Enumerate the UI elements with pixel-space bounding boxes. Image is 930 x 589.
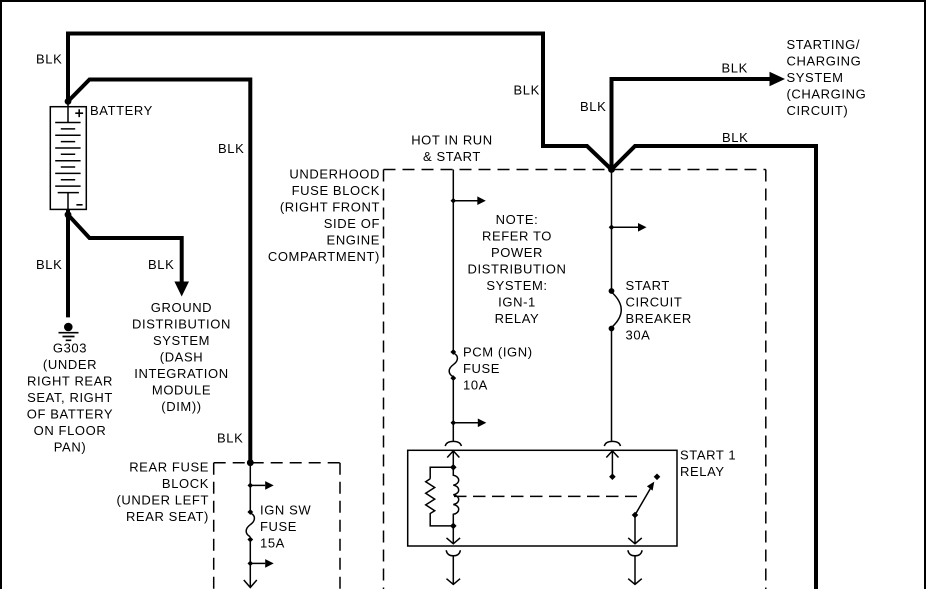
label START CIRCUIT BREAKER 30A (626, 278, 692, 343)
svg-text:BREAKER: BREAKER (626, 311, 692, 326)
svg-text:BLK: BLK (722, 61, 748, 76)
svg-text:(RIGHT FRONT: (RIGHT FRONT (280, 200, 380, 215)
relay box START 1 RELAY (408, 450, 677, 546)
label NOTE REFER TO POWER DISTRIBUTION SYSTEM: IGN-1 RELAY (468, 212, 567, 326)
svg-text:STARTING/: STARTING/ (787, 37, 861, 52)
svg-text:DISTRIBUTION: DISTRIBUTION (468, 262, 567, 277)
svg-text:MODULE: MODULE (152, 383, 211, 398)
node main junction (608, 166, 615, 173)
battery BATTERY (50, 101, 86, 215)
svg-text:RELAY: RELAY (680, 464, 725, 479)
svg-text:COMPARTMENT): COMPARTMENT) (268, 249, 380, 264)
relay switch blade with arrow (635, 489, 650, 516)
svg-text:(UNDER LEFT: (UNDER LEFT (116, 492, 209, 507)
svg-text:OF BATTERY: OF BATTERY (27, 407, 113, 422)
svg-text:CHARGING: CHARGING (787, 53, 862, 68)
svg-text:BLK: BLK (722, 130, 748, 145)
wire breaker to relay switch pin (611, 329, 613, 441)
svg-text:(DASH: (DASH (160, 350, 203, 365)
coil inside relay (453, 467, 458, 526)
svg-text:30A: 30A (626, 328, 651, 343)
wire relay switch pin exit with arrow (628, 556, 642, 585)
wire junction to starting/charging system (BLK) (612, 79, 770, 170)
connector at relay coil pin top (445, 441, 461, 446)
svg-text:SIDE OF: SIDE OF (324, 216, 380, 231)
svg-text:15A: 15A (260, 536, 285, 551)
node relay coil bottom (450, 523, 457, 530)
svg-text:REFER TO: REFER TO (482, 229, 552, 244)
node tap with arrow (612, 226, 639, 228)
node battery positive terminal (65, 98, 72, 105)
svg-text:SEAT, RIGHT: SEAT, RIGHT (27, 390, 113, 405)
node rear fuse block feed (247, 459, 254, 466)
label STARTING/CHARGING SYSTEM text (787, 37, 867, 118)
ground G303 (59, 323, 79, 341)
svg-text:FUSE BLOCK: FUSE BLOCK (292, 183, 380, 198)
svg-text:REAR FUSE: REAR FUSE (129, 459, 209, 474)
node battery negative terminal (65, 211, 72, 218)
wire rear fuse column (249, 463, 251, 512)
label battery minus sign (76, 204, 82, 206)
svg-text:PCM (IGN): PCM (IGN) (463, 345, 533, 360)
connector below relay coil pin (446, 550, 460, 556)
svg-text:FUSE: FUSE (260, 519, 297, 534)
wire battery negative to ground G303 (66, 209, 70, 317)
relay coil pin entry arrow (447, 451, 459, 467)
svg-text:& START: & START (423, 149, 481, 164)
node relay switch fixed contact (654, 474, 661, 481)
svg-text:ON FLOOR: ON FLOOR (34, 423, 107, 438)
wire junction to right side down (BLK) (612, 146, 817, 589)
svg-text:BLOCK: BLOCK (162, 476, 209, 491)
label REAR FUSE BLOCK text (116, 459, 209, 524)
fuse IGN SW FUSE 15A (246, 509, 254, 542)
wire relay coil pin exit with arrow (447, 556, 461, 585)
wire junction down to circuit breaker (611, 170, 613, 292)
svg-text:UNDERHOOD: UNDERHOOD (289, 167, 380, 182)
svg-text:(UNDER: (UNDER (43, 357, 97, 372)
svg-text:BLK: BLK (148, 257, 174, 272)
circuit breaker START CIRCUIT BREAKER 30A (609, 288, 622, 331)
wire switch pivot to box bottom with arrow (628, 515, 642, 544)
connector at relay switch pin top (604, 441, 620, 446)
svg-text:START 1: START 1 (680, 448, 736, 463)
svg-text:BATTERY: BATTERY (90, 103, 153, 118)
wire fuse down with arrow tap and exit arrow (244, 540, 257, 588)
label START 1 RELAY (680, 448, 736, 480)
svg-text:(DIM)): (DIM)) (161, 399, 201, 414)
underhood fuse block dashed box (384, 170, 766, 589)
wire battery positive to top bus to junction node (68, 34, 612, 170)
rear fuse block dashed box (214, 463, 340, 589)
svg-text:POWER: POWER (491, 245, 543, 260)
label UNDERHOOD FUSE BLOCK text (268, 167, 380, 265)
arrow to ground distribution system (174, 282, 189, 297)
fuse PCM (IGN) FUSE 10A (449, 349, 457, 381)
label GROUND DISTRIBUTION SYSTEM (DASH INTEGRATION MODULE (DIM)) (132, 300, 231, 414)
svg-text:ENGINE: ENGINE (327, 233, 380, 248)
svg-text:BLK: BLK (514, 83, 540, 98)
svg-text:IGN-1: IGN-1 (498, 295, 536, 310)
svg-text:RIGHT REAR: RIGHT REAR (27, 374, 113, 389)
label IGN SW FUSE 15A (260, 503, 311, 551)
wire battery negative to ground distribution system (BLK) (68, 215, 182, 282)
svg-text:CIRCUIT: CIRCUIT (626, 295, 683, 310)
svg-text:CIRCUIT): CIRCUIT) (787, 103, 849, 118)
relay switch pin entry arrow (606, 451, 618, 477)
svg-text:BLK: BLK (36, 257, 62, 272)
node relay switch pivot (632, 512, 639, 519)
svg-text:RELAY: RELAY (495, 311, 540, 326)
svg-text:FUSE: FUSE (463, 361, 500, 376)
resistor inside relay (426, 467, 454, 526)
label PCM (IGN) FUSE 10A (463, 345, 533, 393)
dashed linkage coil to switch (454, 495, 637, 497)
svg-text:DISTRIBUTION: DISTRIBUTION (132, 317, 231, 332)
svg-text:SYSTEM:: SYSTEM: (486, 278, 547, 293)
svg-text:IGN SW: IGN SW (260, 503, 311, 518)
svg-text:BLK: BLK (218, 141, 244, 156)
svg-text:BLK: BLK (36, 52, 62, 67)
wire hot-in-run column (452, 170, 454, 353)
arrow to starting/charging system (770, 72, 786, 86)
node relay coil top (450, 464, 457, 471)
wire battery positive to rear fuse block (BLK) (68, 80, 250, 463)
node tap with arrow above relay (453, 422, 478, 424)
label battery plus sign (75, 109, 83, 117)
node tap with arrow (250, 484, 265, 486)
wire fuse to relay coil pin (452, 378, 454, 441)
svg-text:INTEGRATION: INTEGRATION (134, 366, 228, 381)
svg-text:START: START (626, 278, 670, 293)
wire coil to box bottom with arrow (447, 526, 461, 544)
svg-text:BLK: BLK (580, 99, 606, 114)
svg-text:10A: 10A (463, 378, 488, 393)
svg-text:SYSTEM: SYSTEM (153, 333, 210, 348)
svg-text:PAN): PAN) (54, 440, 87, 455)
svg-text:GROUND: GROUND (151, 300, 212, 315)
svg-text:G303: G303 (53, 341, 87, 356)
svg-text:BLK: BLK (217, 431, 243, 446)
svg-text:REAR SEAT): REAR SEAT) (126, 509, 209, 524)
label G303 location text (27, 341, 113, 455)
svg-text:HOT IN RUN: HOT IN RUN (411, 133, 493, 148)
node tap with arrow (453, 200, 477, 202)
connector below relay switch pin (628, 550, 642, 556)
svg-text:SYSTEM: SYSTEM (787, 70, 844, 85)
node relay switch input contact (609, 473, 616, 480)
label HOT IN RUN & START (411, 133, 493, 165)
svg-text:(CHARGING: (CHARGING (787, 87, 867, 102)
node tap with arrow (250, 562, 265, 564)
svg-text:NOTE:: NOTE: (496, 212, 539, 227)
